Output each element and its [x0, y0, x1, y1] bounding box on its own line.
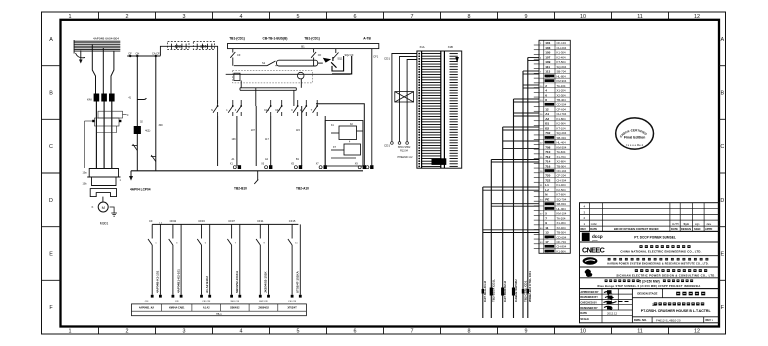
design stage row	[632, 297, 719, 299]
cable entry arrow	[74, 40, 85, 61]
local relay subcircuit	[325, 121, 363, 167]
rail end drop arrow	[130, 171, 132, 177]
dccp logo	[582, 233, 590, 241]
svg-text:I s s u e Re.1: I s s u e Re.1	[626, 143, 643, 147]
svg-text:K1 5: K1 5	[264, 109, 270, 112]
dwg number row	[632, 316, 719, 318]
svg-text:2: 2	[126, 328, 129, 334]
svg-text:A-TB: A-TB	[363, 36, 371, 40]
svg-text:9: 9	[525, 328, 528, 334]
contactor KM poles	[94, 94, 115, 102]
svg-text:CF-704: CF-704	[557, 240, 567, 244]
svg-text:B: B	[720, 91, 724, 97]
svg-text:X1-304: X1-304	[557, 221, 566, 225]
svg-text:CD-504: CD-504	[557, 103, 567, 107]
svg-text:PH&GND 1×2: PH&GND 1×2	[398, 156, 414, 159]
svg-text:E: E	[49, 252, 53, 258]
svg-text:KT-604: KT-604	[557, 193, 566, 197]
svg-text:1: 1	[545, 202, 547, 206]
sichuan logo	[585, 269, 593, 277]
svg-text:K2-404: K2-404	[557, 55, 566, 59]
svg-text:CF03: CF03	[198, 219, 205, 223]
motor ground	[110, 207, 117, 216]
svg-text:JXB04/52-101K: JXB04/52-101K	[264, 271, 268, 293]
dashed terminal box 1	[168, 41, 189, 49]
svg-text:C1F C2F: C1F C2F	[202, 301, 211, 303]
svg-text:K2-504: K2-504	[557, 188, 566, 192]
svg-text:4AP04 LCP04: 4AP04 LCP04	[130, 187, 151, 191]
svg-text:CAT 4GA-K1-U: CAT 4GA-K1-U	[483, 281, 487, 302]
relay coil box	[277, 60, 318, 66]
svg-text:2012.12: 2012.12	[607, 311, 618, 315]
svg-text:TA-604: TA-604	[557, 150, 566, 154]
svg-text:S1: S1	[262, 61, 266, 65]
svg-text:CF: CF	[237, 53, 241, 57]
svg-text:XT03/4T-101KA: XT03/4T-101KA	[296, 270, 300, 293]
svg-text:X2-404: X2-404	[557, 226, 566, 230]
svg-text:L1: L1	[545, 183, 549, 187]
svg-text:CF-604: CF-604	[557, 107, 567, 111]
svg-text:CF07: CF07	[228, 219, 235, 223]
contact on CF wire	[132, 144, 138, 151]
block top-right arrow	[455, 57, 459, 63]
approval stamp	[616, 118, 654, 149]
svg-text:CF-204: CF-204	[557, 174, 567, 178]
time relay row	[234, 61, 277, 66]
svg-text:TB1-(CD1): TB1-(CD1)	[229, 36, 245, 40]
svg-text:CB-TB-1-BUS(B): CB-TB-1-BUS(B)	[263, 36, 288, 40]
svg-text:B2: B2	[545, 126, 549, 130]
svg-text:4: 4	[545, 89, 547, 93]
svg-text:5: 5	[297, 328, 300, 334]
svg-text:CD-604: CD-604	[557, 235, 567, 239]
svg-text:716: 716	[545, 164, 550, 168]
svg-text:720: 720	[545, 174, 550, 178]
svg-text:B1: B1	[545, 122, 549, 126]
terminal pair CF15	[288, 224, 300, 294]
svg-text:PT. DCCP POWER SUMSEL: PT. DCCP POWER SUMSEL	[634, 235, 676, 239]
svg-text:DATE: DATE	[671, 227, 678, 231]
svg-text:X1B: X1B	[448, 45, 453, 49]
svg-text:CABLE 4AP04U: CABLE 4AP04U	[514, 279, 518, 302]
svg-text:DESIGN STAGE: DESIGN STAGE	[637, 292, 657, 296]
wire coil to right drop	[318, 62, 323, 64]
svg-text:CF02: CF02	[170, 219, 177, 223]
svg-text:CAT 4GA-K2-U: CAT 4GA-K2-U	[503, 281, 507, 302]
wire list cell text	[540, 41, 567, 253]
enclosure thin rect	[233, 71, 313, 83]
svg-text:SQ2 CF: SQ2 CF	[345, 54, 355, 57]
wires below contactor	[96, 102, 111, 169]
svg-text:dccp: dccp	[592, 234, 603, 239]
svg-text:1: 1	[69, 14, 72, 20]
svg-text:F4612-S_4B10-20: F4612-S_4B10-20	[656, 318, 681, 322]
svg-text:KT-104: KT-104	[557, 126, 566, 130]
phase wires to contactor	[92, 45, 114, 94]
svg-text:X1-704: X1-704	[557, 155, 566, 159]
svg-text:TB2-A10: TB2-A10	[296, 187, 309, 191]
svg-text:2: 2	[126, 14, 129, 20]
svg-text:17: 17	[545, 240, 549, 244]
svg-text:SQ-604: SQ-604	[557, 65, 567, 69]
svg-text:7: 7	[545, 216, 547, 220]
svg-text:HL-904: HL-904	[557, 207, 567, 211]
svg-text:4: 4	[240, 328, 243, 334]
link wire through boxes	[160, 46, 217, 103]
svg-text:714: 714	[545, 160, 550, 164]
svg-text:CD1: CD1	[384, 57, 390, 61]
svg-text:115: 115	[296, 129, 300, 132]
harbin logo	[583, 257, 598, 264]
svg-text:6: 6	[545, 93, 547, 97]
svg-text:TB-404: TB-404	[557, 98, 567, 102]
terminal pair CF11	[256, 224, 268, 294]
svg-text:TA-204: TA-204	[557, 216, 566, 220]
svg-text:X1-204: X1-204	[557, 89, 566, 93]
svg-text:3: 3	[545, 207, 547, 211]
feeder wire CF	[137, 56, 146, 171]
svg-text:Riau Bungo STEP SUMSEL-5 (2×15: Riau Bungo STEP SUMSEL-5 (2×150 MW) CFSP…	[597, 284, 700, 288]
svg-text:A2: A2	[545, 117, 549, 121]
svg-text:712: 712	[545, 155, 550, 159]
terminal block body	[417, 51, 462, 168]
fuse tap 3 with arrow contact	[333, 49, 339, 59]
svg-text:REV: REV	[581, 227, 587, 231]
svg-text:10: 10	[580, 328, 586, 334]
terminal strip table	[132, 304, 307, 316]
svg-text:HARBIN POWER SYSTEM ENGINEERIN: HARBIN POWER SYSTEM ENGINEERING & RESEAR…	[607, 263, 709, 266]
svg-text:107: 107	[251, 129, 256, 132]
paired link lines	[240, 79, 301, 106]
lamp circle	[297, 72, 304, 79]
svg-text:A: A	[49, 37, 53, 43]
svg-text:12: 12	[694, 14, 700, 20]
pin ticks right	[450, 54, 458, 167]
terminal pair CF07	[227, 224, 239, 294]
bus labels	[229, 36, 371, 40]
svg-text:SQ1: SQ1	[337, 58, 343, 61]
svg-text:K1-304: K1-304	[557, 51, 566, 55]
svg-text:CH-804: CH-804	[557, 245, 567, 249]
svg-text:DATE: DATE	[580, 312, 587, 315]
wire list table frame	[539, 40, 570, 253]
svg-text:KM-104: KM-104	[557, 212, 567, 216]
svg-text:C: C	[49, 144, 53, 150]
svg-text:SB04/52: SB04/52	[230, 307, 240, 310]
svg-text:DESIGNED BY: DESIGNED BY	[580, 307, 598, 310]
terminal ticks in dashed boxes	[172, 44, 212, 49]
svg-text:SB-304: SB-304	[557, 136, 567, 140]
svg-text:TB1-(CD1): TB1-(CD1)	[304, 36, 320, 40]
svg-text:APPROVED BY: APPROVED BY	[580, 291, 599, 294]
svg-text:TB2-B10: TB2-B10	[234, 187, 247, 191]
svg-text:E: E	[720, 252, 724, 258]
interlock contact network	[85, 111, 127, 168]
svg-text:TB-504: TB-504	[557, 231, 567, 235]
terminal pair CF02	[169, 224, 181, 294]
svg-text:CH-704: CH-704	[557, 112, 567, 116]
svg-text:10: 10	[580, 14, 586, 20]
svg-text:D: D	[49, 198, 53, 204]
svg-text:10: 10	[545, 103, 549, 107]
svg-text:CD1: CD1	[384, 144, 390, 148]
upper right feed line	[316, 104, 364, 166]
svg-text:117: 117	[265, 138, 269, 141]
svg-text:111: 111	[545, 65, 550, 69]
svg-text:6: 6	[354, 328, 357, 334]
svg-text:113: 113	[545, 70, 550, 74]
svg-text:4AP04B 6A04-B04: 4AP04B 6A04-B04	[93, 36, 119, 40]
interlock row line	[226, 73, 351, 75]
svg-text:2: 2	[545, 84, 547, 88]
svg-text:L2: L2	[545, 188, 549, 192]
svg-text:DESIGN: DESIGN	[681, 227, 691, 231]
svg-text:SCALE: SCALE	[580, 318, 589, 321]
svg-text:10b: 10b	[83, 183, 88, 186]
svg-text:107: 107	[545, 55, 550, 59]
wire list rows	[539, 45, 570, 249]
svg-text:710: 710	[545, 150, 550, 154]
right bus drop	[371, 49, 373, 166]
svg-text:8: 8	[545, 98, 547, 102]
terminal pair CF	[148, 224, 160, 294]
svg-text:N: N	[211, 109, 213, 112]
svg-text:CF: CF	[318, 53, 322, 57]
revision table	[580, 203, 720, 232]
svg-text:CF-104: CF-104	[557, 41, 567, 45]
terminal group labels	[170, 219, 296, 223]
svg-text:4AP04B1_KA: 4AP04B1_KA	[139, 307, 154, 310]
svg-text:722: 722	[545, 178, 550, 182]
wire list dark cells	[545, 75, 555, 253]
svg-text:-5 (2×150 MW): -5 (2×150 MW)	[638, 279, 659, 283]
svg-text:CNEEC: CNEEC	[582, 246, 605, 255]
svg-text:CH-304: CH-304	[557, 178, 567, 182]
current transformer set	[87, 169, 120, 197]
company band frame	[580, 231, 720, 288]
svg-text:12: 12	[545, 107, 549, 111]
inline relay on feeder	[395, 92, 414, 102]
terminal feeder rail	[152, 223, 298, 225]
svg-text:KM: KM	[87, 98, 92, 102]
wires converge to motor	[102, 197, 104, 202]
svg-text:TB2-B10A CD1L: TB2-B10A CD1L	[492, 279, 496, 302]
terminal pair CF03	[197, 224, 209, 294]
svg-text:DWG. NO.: DWG. NO.	[634, 318, 647, 322]
svg-text:KM04A-CAB1: KM04A-CAB1	[169, 307, 185, 310]
connector feeder wires	[392, 54, 417, 142]
svg-text:KT-504: KT-504	[557, 60, 566, 64]
svg-text:CF1: CF1	[373, 55, 378, 59]
svg-text:103: 103	[545, 46, 550, 50]
svg-text:8: 8	[468, 14, 471, 20]
hanging stub below rail	[254, 171, 258, 184]
svg-text:C: C	[127, 114, 129, 117]
relay coil K4	[134, 126, 141, 134]
svg-text:JXB04/52: JXB04/52	[258, 307, 269, 310]
svg-text:HL-804: HL-804	[557, 74, 567, 78]
droppers to rail	[218, 106, 326, 166]
svg-text:WRB2-B10 CTRL CD1: WRB2-B10 CTRL CD1	[528, 271, 532, 302]
svg-text:K1-804: K1-804	[557, 117, 566, 121]
svg-text:21: 21	[545, 249, 549, 253]
dashed terminal box 2	[193, 41, 214, 49]
svg-text:SB04/52-101KA: SB04/52-101KA	[235, 270, 239, 293]
svg-text:CD-104: CD-104	[557, 169, 567, 173]
svg-text:4AP04B-K1-101: 4AP04B-K1-101	[156, 270, 160, 293]
svg-text:DATE: DATE	[590, 227, 597, 231]
svg-text:A1 A2 B1C2: A1 A2 B1C2	[205, 276, 209, 293]
svg-text:15: 15	[545, 235, 549, 239]
motor M circle	[98, 202, 108, 212]
svg-text:X2-304: X2-304	[557, 93, 566, 97]
harness vertical wires	[483, 58, 528, 319]
svg-text:11: 11	[637, 328, 643, 334]
svg-text:13: 13	[545, 231, 549, 235]
svg-text:SW2 C2F: SW2 C2F	[259, 301, 268, 303]
svg-text:10a: 10a	[83, 172, 88, 175]
svg-text:1: 1	[69, 328, 72, 334]
svg-text:KM-504: KM-504	[557, 145, 567, 149]
wire list stub ticks	[534, 45, 539, 249]
svg-text:SB-804: SB-804	[557, 202, 567, 206]
svg-text:X1A: X1A	[420, 45, 425, 49]
svg-text:702: 702	[545, 131, 550, 135]
feeder wire CH	[155, 56, 157, 171]
svg-text:CF11: CF11	[257, 219, 264, 223]
svg-text:C: C	[720, 144, 724, 150]
svg-text:B: B	[49, 91, 53, 97]
svg-text:TB2 CTRL CD1: TB2 CTRL CD1	[523, 280, 527, 302]
svg-text:5: 5	[297, 14, 300, 20]
svg-text:K2-904: K2-904	[557, 122, 566, 126]
contact box K	[234, 73, 240, 80]
svg-text:Final Edition: Final Edition	[624, 136, 646, 140]
svg-text:TB-904: TB-904	[557, 164, 567, 168]
harness connector lugs	[482, 288, 529, 296]
fuse tap 1	[230, 49, 235, 66]
svg-text:CHINA NATIONAL ELECTRIC ENGINE: CHINA NATIONAL ELECTRIC ENGINEERING CO.,…	[620, 249, 701, 253]
svg-text:C1F C2F: C1F C2F	[288, 301, 297, 303]
svg-text:CF15: CF15	[289, 219, 296, 223]
svg-text:X2-804: X2-804	[557, 160, 566, 164]
svg-text:AUTH: AUTH	[672, 223, 679, 226]
svg-text:B1: B1	[301, 45, 305, 49]
svg-text:8: 8	[468, 328, 471, 334]
signatures	[604, 292, 629, 310]
svg-text:D: D	[720, 198, 724, 204]
svg-text:BID OF KITCHEN CONTEXT ISSUED: BID OF KITCHEN CONTEXT ISSUED	[614, 227, 659, 231]
sheet inner border	[61, 20, 720, 327]
svg-text:SICHUAN ELECTRIC POWER DESIGN: SICHUAN ELECTRIC POWER DESIGN & CONSULTI…	[616, 274, 715, 278]
svg-text:sign: sign	[695, 223, 700, 226]
svg-text:XT03/4T: XT03/4T	[288, 307, 298, 310]
svg-text:115: 115	[545, 74, 550, 78]
contact row	[213, 100, 317, 116]
svg-text:109: 109	[545, 60, 550, 64]
common return rail	[131, 170, 363, 172]
svg-text:SQ-204: SQ-204	[557, 131, 567, 135]
svg-text:7: 7	[411, 14, 414, 20]
fuse tap 2	[311, 49, 316, 66]
svg-text:103: 103	[232, 138, 237, 141]
svg-text:704: 704	[545, 136, 550, 140]
svg-text:TA-104: TA-104	[557, 84, 566, 88]
svg-text:C4 7: C4 7	[275, 109, 281, 112]
svg-text:CF: CF	[149, 219, 153, 223]
svg-text:6: 6	[354, 14, 357, 20]
svg-text:11: 11	[637, 14, 643, 20]
busbar 4AP04B	[74, 41, 121, 51]
svg-text:PE: PE	[545, 197, 549, 201]
svg-text:3: 3	[183, 328, 186, 334]
pin dots column	[418, 53, 420, 168]
svg-text:7: 7	[411, 328, 414, 334]
svg-text:300: 300	[159, 124, 164, 127]
svg-text:M301: M301	[100, 222, 109, 226]
svg-text:K: K	[92, 205, 94, 209]
harness branch wires	[483, 58, 539, 233]
svg-text:718: 718	[545, 169, 550, 173]
svg-text:SB-704: SB-704	[557, 70, 567, 74]
svg-text:9: 9	[525, 14, 528, 20]
pin ladder left	[422, 51, 445, 168]
svg-text:A: A	[720, 37, 724, 43]
svg-text:CF: CF	[128, 52, 132, 56]
svg-text:SQ-704: SQ-704	[557, 197, 567, 201]
svg-text:SW1 C1F: SW1 C1F	[230, 301, 239, 303]
feeder bottom labels	[398, 146, 414, 159]
svg-text:PT.CRSH. CRUSHER HOUSE B L.T.: PT.CRSH. CRUSHER HOUSE B L.T.&CTRL	[641, 309, 712, 313]
svg-text:117: 117	[545, 79, 550, 83]
svg-text:11: 11	[545, 226, 549, 230]
svg-text:CH: CH	[136, 52, 140, 56]
svg-text:APPD: APPD	[705, 227, 712, 231]
svg-text:12: 12	[694, 328, 700, 334]
svg-text:HL-404: HL-404	[557, 141, 567, 145]
svg-text:101: 101	[545, 41, 550, 45]
aux tap CF/CH	[127, 55, 160, 57]
svg-text:K1-404: K1-404	[557, 183, 566, 187]
svg-text:KM-904: KM-904	[557, 79, 567, 83]
svg-text:K1-904: K1-904	[557, 249, 566, 253]
svg-text:5: 5	[545, 212, 547, 216]
svg-text:REVIEWED BY: REVIEWED BY	[580, 296, 598, 299]
signature block frame	[580, 289, 720, 323]
project name row	[605, 279, 608, 282]
control bus rectangle	[228, 44, 379, 49]
svg-text:3: 3	[183, 14, 186, 20]
svg-text:A1: A1	[545, 112, 549, 116]
svg-text:4(1): 4(1)	[145, 129, 150, 133]
svg-text:19: 19	[545, 245, 549, 249]
svg-text:SIGN: SIGN	[694, 227, 700, 231]
svg-text:CH-204: CH-204	[557, 46, 567, 50]
svg-text:TB-1: TB-1	[216, 312, 222, 316]
svg-text:R12:04: R12:04	[400, 149, 408, 152]
svg-text:4: 4	[240, 14, 243, 20]
svg-text:SyA: SyA	[684, 222, 689, 226]
svg-text:9: 9	[545, 221, 547, 225]
svg-text:A1 A2: A1 A2	[203, 307, 210, 310]
harness cable labels	[483, 271, 532, 302]
rail terminal studs	[233, 165, 366, 169]
svg-text:105: 105	[545, 51, 550, 55]
svg-text:4AP04B1-K2-101: 4AP04B1-K2-101	[176, 269, 180, 293]
svg-text:1-Mar: 1-Mar	[591, 223, 597, 226]
svg-text:date: date	[707, 223, 712, 226]
svg-text:M: M	[102, 205, 105, 210]
